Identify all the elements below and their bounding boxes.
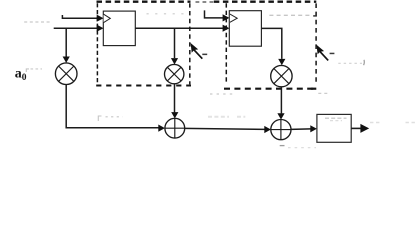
dashed box D2 top edge — [214, 1, 316, 3]
multiplier M3 circle — [271, 65, 292, 86]
wire M3 output down to adder A2 — [280, 87, 282, 114]
wire clock elbow into U2 — [205, 10, 224, 18]
wire data input line — [54, 27, 97, 29]
faint dots below D2 bottom-right — [318, 92, 328, 94]
dashed box D2 bottom edge — [224, 88, 316, 90]
faint remnant dots inside D1 — [147, 13, 188, 15]
dark corner piece at D2 right edge — [313, 15, 317, 17]
adder A1 circle — [165, 118, 185, 138]
faint erased text inside output block — [325, 117, 347, 119]
adder A1 plus — [165, 118, 185, 138]
faint speckle row bottom — [288, 147, 316, 149]
wire U2 output elbow down to multiplier M3 — [261, 28, 281, 59]
faint dots below D2 bottom-left — [210, 93, 234, 95]
multiplier M2 circle — [165, 64, 184, 83]
faint remnant bracket above bottom wire — [98, 116, 101, 121]
arrowhead into A1 top — [171, 112, 178, 118]
dashed box D2 bottom-right corner dash — [311, 88, 317, 90]
svg-text:a: a — [15, 66, 22, 81]
adder A2 circle — [271, 120, 291, 140]
arrowhead clock U1 — [97, 15, 104, 22]
arrowhead into A2 top — [277, 113, 284, 119]
faint dotted row right of cursor 2 — [338, 62, 362, 64]
arrowhead into output block — [310, 125, 317, 132]
multiplier M3 cross — [274, 69, 289, 84]
register U2 clock wedge — [230, 14, 237, 22]
arrowhead output — [360, 124, 369, 133]
dashed gray segment between D1 and D2 — [196, 1, 220, 3]
output block B1 — [317, 114, 351, 142]
small gray mark end of dotted row — [363, 60, 366, 65]
faint erased text inside output block row2 — [330, 120, 342, 122]
wire node tap down to multiplier M1 — [65, 28, 67, 57]
faint dashes of bracket — [31, 68, 43, 70]
multiplier M1 circle — [55, 63, 77, 85]
svg-text:0: 0 — [22, 73, 27, 83]
wire M2 output down to adder A1 — [174, 84, 176, 113]
dashed box D1 left edge — [96, 3, 98, 84]
gray dash below adder A2 — [280, 145, 285, 147]
register U1 clock wedge — [104, 14, 111, 22]
cursor icon 1 — [191, 43, 208, 59]
faint remnant top-left dotted row — [24, 21, 50, 23]
register U1 body — [103, 11, 135, 46]
faint marks right of output arrow — [370, 122, 416, 124]
wire output — [351, 127, 361, 129]
register U2 body — [229, 11, 261, 47]
adder A2 plus — [271, 120, 291, 140]
arrowhead clock U2 — [223, 14, 230, 21]
arrowhead into M1 — [63, 57, 70, 63]
arrowhead into A1 left — [158, 125, 165, 132]
multiplier M2 cross — [167, 67, 181, 81]
dashed box D2 left edge — [225, 3, 227, 83]
faint dots after bracket — [106, 116, 123, 118]
faint erased text rows between adders — [208, 116, 245, 118]
faint remnant row right of U2 — [269, 14, 312, 16]
arrowhead data U1 — [97, 25, 104, 32]
wire clock elbow into U1 — [62, 15, 97, 18]
arrowhead into M3 — [278, 59, 285, 65]
dashed box D1 top edge — [97, 1, 191, 3]
arrowhead data U2 — [223, 25, 230, 32]
faint remnant bracket near a0 — [26, 69, 29, 72]
arrowhead into A2 left — [264, 126, 271, 133]
wire node tap down to multiplier M2 — [174, 28, 176, 58]
cursor icon 2 — [317, 45, 335, 61]
wire A2 to output block — [291, 128, 311, 131]
multiplier M1 cross — [59, 66, 74, 81]
dashed box D1 bottom edge — [96, 84, 191, 86]
wire U1 output to U2 — [135, 27, 223, 29]
dashed box D1 right edge — [189, 3, 191, 84]
wire A1 to A2 — [185, 128, 265, 129]
wire M1 output down and right to adder A1 — [66, 85, 159, 128]
arrowhead into M2 — [171, 58, 178, 64]
dashed box D2 right edge — [315, 3, 317, 84]
